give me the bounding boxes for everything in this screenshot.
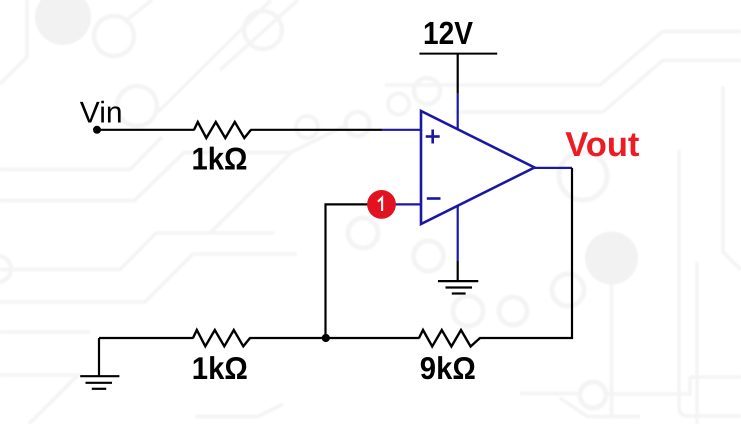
wire R1 to op-amp noninverting input [251, 129, 383, 131]
svg-text:9kΩ: 9kΩ [420, 350, 476, 386]
wire Vin to R1 [97, 129, 195, 131]
node feedback junction dot [322, 334, 330, 342]
wire R2 to junction [250, 337, 327, 339]
svg-text:Vout: Vout [565, 126, 640, 164]
resistor R3 9kOhm [419, 330, 480, 347]
wire junction to R3 [327, 337, 420, 339]
resistor R2 1kOhm [193, 330, 250, 346]
svg-text:1kΩ: 1kΩ [192, 141, 248, 177]
svg-text:1kΩ: 1kΩ [192, 350, 248, 386]
svg-text:12V: 12V [423, 15, 474, 51]
wire R3 to output branch [480, 337, 574, 339]
wire output down to feedback network [571, 168, 573, 338]
wire 12V rail to op-amp V+ [457, 54, 459, 93]
ground under op-amp [438, 281, 478, 293]
svg-text:Vin: Vin [80, 97, 123, 130]
wire feedback from badge to junction [326, 204, 371, 338]
wire inverting input (blue pin segment) [393, 203, 421, 205]
wire ground to R2 [99, 337, 194, 339]
wire op-amp V- to ground [457, 206, 459, 261]
wire op-amp output [535, 167, 573, 169]
power rail 12V [419, 53, 497, 55]
node Vin terminal dot [93, 126, 101, 134]
op-amp minus input marker [427, 197, 441, 200]
op-amp plus input marker [426, 130, 440, 144]
ground left [80, 338, 119, 389]
op-amp U1 triangle [421, 111, 535, 224]
node 1 badge on inverting input [367, 190, 396, 219]
resistor R1 1kOhm [194, 122, 251, 138]
